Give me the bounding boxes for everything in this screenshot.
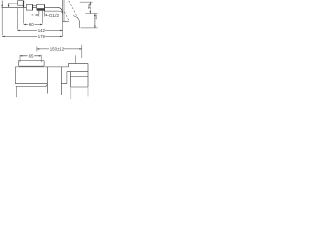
dim 65 line: [20, 55, 41, 57]
front view: left pipe thin: [15, 86, 17, 97]
right union step line: [71, 76, 89, 78]
wall face line: [62, 0, 64, 22]
dim 60 line: [24, 23, 43, 25]
label leader vline: [75, 55, 77, 63]
top view: body top profile line: [2, 7, 63, 13]
arrowhead down at x8.6: [8, 5, 10, 7]
svg-text:39: 39: [87, 4, 92, 10]
mini-fig curve join: [73, 16, 79, 22]
mini-figure pipe vline: [79, 21, 81, 28]
outlet block neck top line: [33, 5, 37, 7]
svg-text:150±12: 150±12: [50, 47, 65, 52]
front view: body left edge: [14, 67, 16, 84]
right union right edge long: [87, 64, 89, 87]
outlet pipe right edge: [41, 11, 43, 14]
front view: body right lower edge: [66, 72, 68, 84]
pivot square: [26, 4, 32, 10]
ext line 150 right: [81, 45, 83, 58]
outlet pipe left edge: [38, 11, 40, 14]
right union left edge long: [70, 72, 73, 87]
right ext line top (39 dim): [80, 1, 93, 3]
G1/2 callout right arrow: [45, 14, 47, 16]
small lever top edge line: [9, 2, 18, 4]
ext line 65 left: [19, 55, 21, 62]
ext line 65 right: [40, 55, 42, 62]
svg-text:–G1/2: –G1/2: [46, 13, 59, 18]
wall bottom line: [63, 21, 69, 23]
handle grip square: [18, 1, 24, 6]
outlet block dark band: [37, 9, 45, 11]
ext line 150 left: [36, 46, 38, 51]
handle grip thick right edge: [23, 1, 24, 8]
outlet block thick right edge: [43, 5, 46, 12]
G1/2 callout left arrow: [32, 14, 37, 16]
svg-text:55: 55: [93, 14, 98, 20]
ext line 60 left: [23, 7, 25, 23]
union pipe faint right: [87, 87, 89, 96]
dim 55 vertical line: [94, 14, 96, 28]
wall second line: [63, 0, 65, 22]
union pipe faint left: [70, 87, 72, 99]
right union bottom line: [71, 86, 88, 88]
ext line wall right (142/179): [62, 22, 64, 37]
right ext line bottom: [81, 27, 98, 29]
right ext line middle: [85, 13, 97, 15]
wall hatch diagonal dashed: [69, 1, 80, 21]
ext line 142 left: [16, 8, 18, 29]
front view: body bottom line: [15, 83, 67, 85]
G1/2 extension lines: [39, 12, 45, 17]
ext line 60 right: [41, 14, 43, 24]
dim 150+-12 line: [37, 48, 82, 50]
svg-text:142: 142: [38, 28, 46, 33]
ext line 179 left: [1, 7, 3, 35]
ext nubs inside handle rect: [20, 60, 41, 62]
svg-text:65: 65: [29, 54, 34, 59]
right union block bottom line: [67, 71, 88, 73]
front view: pipe 1: [46, 67, 48, 94]
right union block top: [69, 64, 89, 67]
dim 142 line: [17, 29, 62, 31]
front view: pipe 2: [60, 67, 62, 95]
front view: body top line: [15, 66, 68, 68]
arrowhead down at x2.2: [1, 5, 3, 7]
front view: handle rect: [18, 60, 44, 66]
top view: body bottom profile line: [45, 11, 62, 13]
front view: flange under body: [16, 84, 48, 86]
svg-text:179: 179: [38, 34, 46, 39]
left down-arrow extension (179 ref): [1, 1, 3, 6]
dim 39 vertical line: [89, 2, 91, 13]
svg-text:60: 60: [29, 22, 34, 27]
wall hatch short dash: [64, 12, 69, 21]
outlet block outline: [37, 4, 45, 8]
pivot thick right edge: [32, 4, 33, 10]
dim 179 line: [2, 35, 62, 37]
short vline above second arrow: [8, 3, 10, 5]
